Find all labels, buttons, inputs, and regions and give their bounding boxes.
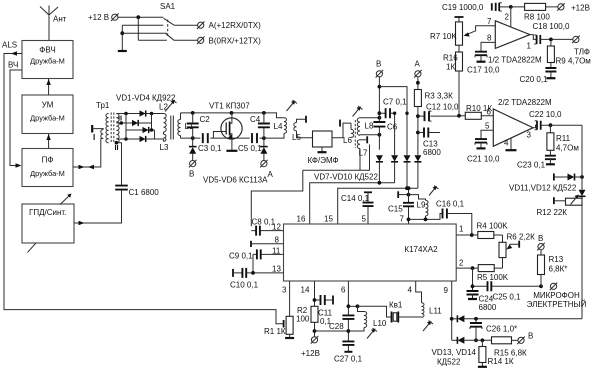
capacitor C14 0,1 <box>341 192 374 224</box>
svg-text:С1 6800: С1 6800 <box>129 188 160 197</box>
svg-text:В: В <box>538 234 543 243</box>
wire УМ to ФВЧ with up arrow <box>46 79 50 95</box>
svg-text:C20 0,1: C20 0,1 <box>520 75 549 84</box>
А column top <box>416 77 420 155</box>
capacitor C27 0,1 <box>334 341 363 363</box>
capacitor C9 0,1 <box>229 249 284 273</box>
svg-text:VD7-VD10 КД522: VD7-VD10 КД522 <box>314 173 378 182</box>
svg-text:2: 2 <box>505 13 510 22</box>
svg-text:R9 4,7Ом: R9 4,7Ом <box>556 57 591 66</box>
svg-text:2: 2 <box>459 259 464 268</box>
svg-text:VD13, VD14: VD13, VD14 <box>432 348 477 357</box>
svg-text:C7 0,1: C7 0,1 <box>383 98 407 107</box>
filter output wire with bar <box>332 120 351 138</box>
transformer Тр1 winding II right <box>116 114 119 143</box>
resistor R8 100 <box>511 3 558 21</box>
op-amp U1 2/2 TDA2822M <box>485 98 552 148</box>
resistor R11 4,7Ом <box>547 125 579 155</box>
wire L1 top to rail <box>180 113 182 120</box>
wire L7 bottom to AF line <box>359 149 361 171</box>
label VD13 VD14 КД522 <box>432 348 477 367</box>
svg-text:3: 3 <box>282 286 287 295</box>
diode VD5 <box>189 138 197 160</box>
svg-text:R13: R13 <box>549 255 564 264</box>
transformer Тр1 core <box>111 113 114 144</box>
capacitor C15 <box>388 186 414 224</box>
diode VD1 <box>140 110 146 116</box>
capacitor C21 10,0 <box>467 130 500 163</box>
diode VD10 <box>414 155 421 188</box>
svg-text:C27 0,1: C27 0,1 <box>334 355 363 364</box>
ПФ output wire with arrows <box>73 139 101 170</box>
svg-text:5: 5 <box>362 215 367 224</box>
ALS feedback wire to R1 tap <box>4 51 284 327</box>
top rail VT1 stage <box>181 111 285 118</box>
transformer Тр1 winding II left <box>106 114 122 153</box>
svg-text:R3 3,3К: R3 3,3К <box>425 92 454 101</box>
svg-text:ЭЛЕКТРЕТНЫЙ: ЭЛЕКТРЕТНЫЙ <box>527 300 587 309</box>
terminal A RX supply <box>197 21 261 30</box>
capacitor C20 0,1 <box>520 68 557 84</box>
diode VD6 <box>260 138 268 160</box>
capacitor C4 <box>250 113 270 138</box>
svg-text:R14 1К: R14 1К <box>488 357 514 366</box>
block ФВЧ Дружба-М <box>22 41 73 79</box>
svg-text:6: 6 <box>341 286 346 295</box>
block ГПД/Синт <box>22 204 74 243</box>
tuning arrow on L9 <box>429 186 439 196</box>
svg-text:С3 0,1: С3 0,1 <box>198 144 222 153</box>
diode VD4 <box>140 136 146 142</box>
resistor R16 1К <box>443 45 463 116</box>
antenna <box>40 6 58 41</box>
svg-text:8: 8 <box>275 236 280 245</box>
resistor R1 1К preset <box>264 316 294 338</box>
svg-text:7: 7 <box>400 215 405 224</box>
capacitor C25 0,1 <box>473 281 543 301</box>
svg-text:ГПД/Синт.: ГПД/Синт. <box>29 208 66 217</box>
svg-text:В: В <box>376 60 381 69</box>
microphone terminal <box>527 283 587 310</box>
tuning arrow on L8 <box>353 106 363 117</box>
diode VD8 <box>391 155 398 183</box>
inductor L11 <box>416 281 443 317</box>
svg-text:C26 1,0*: C26 1,0* <box>486 325 517 334</box>
svg-text:L6: L6 <box>343 136 352 145</box>
svg-text:16: 16 <box>297 215 306 224</box>
svg-text:Кв1: Кв1 <box>389 301 403 310</box>
svg-text:C2: C2 <box>200 115 211 124</box>
svg-text:C9 0,1: C9 0,1 <box>229 252 253 261</box>
svg-text:Дружба-М: Дружба-М <box>30 57 65 66</box>
terminal В top <box>376 60 384 78</box>
terminal +12В bottom <box>301 336 320 358</box>
svg-text:А: А <box>268 170 274 179</box>
svg-text:VD11,VD12 КД522: VD11,VD12 КД522 <box>509 184 577 193</box>
resistor R14 1К <box>478 340 514 367</box>
terminal А mid <box>260 160 273 179</box>
svg-text:C16 0,1: C16 0,1 <box>436 200 465 209</box>
svg-text:L2: L2 <box>159 103 168 112</box>
terminal B TX supply <box>197 37 261 46</box>
svg-text:КД522: КД522 <box>437 358 461 367</box>
+12V supply terminal <box>88 13 119 22</box>
mixer row4 wire <box>116 130 163 141</box>
wire L8 top to В column <box>360 116 381 120</box>
mixer row3 wire <box>126 114 155 132</box>
svg-text:3: 3 <box>527 131 532 140</box>
svg-text:1: 1 <box>527 42 532 51</box>
L9 bottom rail to C16 <box>409 214 443 222</box>
op1 output C18 <box>527 22 573 51</box>
stepped wire to C8 <box>251 170 302 226</box>
mixer row2 wire <box>116 114 151 125</box>
svg-text:5: 5 <box>485 122 490 131</box>
svg-text:VT1 КП307: VT1 КП307 <box>209 102 250 111</box>
resistor R15 6,8К <box>492 337 528 358</box>
d3 column <box>405 112 408 156</box>
tuning arrow on L11 <box>423 321 433 332</box>
svg-text:+12 В: +12 В <box>88 13 109 22</box>
svg-text:Дружба-М: Дружба-М <box>30 169 65 178</box>
svg-text:В: В <box>189 170 194 179</box>
svg-text:4: 4 <box>408 286 413 295</box>
pin14 column R2 <box>296 281 318 337</box>
svg-text:К174ХА2: К174ХА2 <box>404 245 438 254</box>
terminal +12В top right <box>557 3 590 12</box>
svg-text:C21 10,0: C21 10,0 <box>467 155 500 164</box>
svg-text:B(0RX/+12TX): B(0RX/+12TX) <box>209 37 262 46</box>
svg-text:6800: 6800 <box>423 148 441 157</box>
svg-text:C5 0,1: C5 0,1 <box>238 144 262 153</box>
svg-text:А: А <box>415 60 421 69</box>
svg-text:МИКРОФОН: МИКРОФОН <box>533 291 580 300</box>
capacitor C10 0,1 <box>230 268 284 290</box>
wire C1 to ГПД output with arrow <box>74 190 122 225</box>
svg-text:1/2 TDA2822M: 1/2 TDA2822M <box>488 56 542 65</box>
svg-text:I: I <box>93 133 95 142</box>
inductor L2 <box>159 103 168 132</box>
svg-text:R4 100K: R4 100K <box>477 222 509 231</box>
transistor VT1 КП307 <box>209 102 250 151</box>
pin3 wire to R1 <box>289 281 291 316</box>
svg-text:R10 1К: R10 1К <box>466 104 492 113</box>
svg-text:R8 100: R8 100 <box>524 13 550 22</box>
resistor R12 22К pot <box>537 195 583 218</box>
diode VD3 <box>143 127 149 133</box>
capacitor C3 <box>198 133 222 153</box>
diode VD12 <box>579 190 586 197</box>
L5 top bar link <box>297 116 307 123</box>
d2 column <box>393 112 396 156</box>
transformer Тр1 winding I <box>92 125 103 142</box>
svg-text:C4: C4 <box>250 115 261 124</box>
svg-text:C19 1000,0: C19 1000,0 <box>442 3 484 12</box>
resistor R7 10K pot <box>430 17 495 45</box>
AF line under filter <box>303 145 370 171</box>
svg-text:1К: 1К <box>446 63 455 72</box>
inductor L7 <box>357 140 368 158</box>
svg-text:В: В <box>528 332 533 341</box>
resistor R10 1К <box>457 104 493 119</box>
terminal В near R13 <box>537 234 545 250</box>
svg-text:6800: 6800 <box>479 303 497 312</box>
svg-text:C10 0,1: C10 0,1 <box>230 281 259 290</box>
variable slash on ГПД bottom left <box>28 243 36 252</box>
switch SA1 <box>118 2 198 51</box>
capacitor C24 6800 <box>467 268 497 312</box>
svg-text:SA1: SA1 <box>160 2 176 11</box>
branch В to d3 column <box>379 87 407 114</box>
diode VD11 <box>554 174 584 181</box>
svg-text:Ант: Ант <box>53 15 67 24</box>
resistor R6 2,2К pot <box>499 233 535 269</box>
tuning arrow on L10 <box>367 328 377 339</box>
В column <box>378 77 382 150</box>
capacitor C7 <box>379 98 407 119</box>
terminal А top <box>414 60 422 78</box>
inductor L8 <box>357 118 374 136</box>
svg-text:R16: R16 <box>443 54 458 63</box>
svg-text:C15: C15 <box>388 205 403 214</box>
diode VD14 <box>452 337 492 344</box>
inductor L4 <box>274 118 287 134</box>
capacitor C5 <box>238 133 262 153</box>
svg-text:C25 0,1: C25 0,1 <box>493 293 522 302</box>
svg-text:R11: R11 <box>556 134 571 143</box>
svg-text:L8: L8 <box>365 122 374 131</box>
wire L8 bottom to В column <box>360 133 381 137</box>
svg-text:2/2 TDA2822M: 2/2 TDA2822M <box>498 98 552 107</box>
ВЧ wire into ПФ with right arrow <box>10 70 22 168</box>
svg-text:+12В: +12В <box>571 4 590 13</box>
svg-text:C17 10,0: C17 10,0 <box>467 66 500 75</box>
svg-text:L10: L10 <box>373 319 387 328</box>
IC K174XA2 <box>272 215 464 296</box>
rail A to pin16 <box>310 181 395 224</box>
filter КФ/ЭМФ <box>308 131 339 165</box>
svg-text:4: 4 <box>504 139 509 148</box>
op-amp U1 1/2 TDA2822M <box>487 7 542 65</box>
svg-text:Тр1: Тр1 <box>96 101 110 110</box>
tuning arrow on ГПД top right <box>60 194 72 205</box>
svg-text:ПФ: ПФ <box>42 156 54 165</box>
terminal ТЛФ <box>572 36 590 57</box>
pin1 wire <box>456 233 473 237</box>
capacitor C1 6800 <box>115 186 159 197</box>
core L2-L1 <box>171 116 174 140</box>
svg-text:L4: L4 <box>274 122 283 131</box>
capacitor C26 1,0 <box>470 319 517 342</box>
right bus vertical <box>581 125 583 319</box>
op2 output C22 <box>527 110 583 140</box>
block ПФ Дружба-М <box>22 149 73 187</box>
tuning arrow on L2 <box>165 100 177 112</box>
crystal Кв1 <box>358 301 422 323</box>
bottom rail C3 C5 <box>181 133 285 140</box>
rail B to pin15 <box>338 186 418 224</box>
svg-text:Дружба-М: Дружба-М <box>30 114 65 123</box>
resistor R13 6,8К <box>538 250 568 287</box>
svg-text:A(+12RX/0TX): A(+12RX/0TX) <box>209 21 262 30</box>
svg-text:9: 9 <box>444 286 449 295</box>
inductor L9 <box>409 195 429 220</box>
svg-text:15: 15 <box>324 215 333 224</box>
diode VD2 <box>132 120 138 126</box>
pin6 column C28 C27 <box>347 281 351 351</box>
svg-text:R6 2,2К: R6 2,2К <box>507 233 536 242</box>
svg-text:6,8К*: 6,8К* <box>549 265 568 274</box>
svg-text:R1 1К: R1 1К <box>264 327 286 336</box>
capacitor C23 0,1 <box>517 156 556 170</box>
capacitor C2 <box>187 113 211 138</box>
block УМ Дружба-М <box>22 95 73 134</box>
svg-text:100: 100 <box>296 315 310 324</box>
capacitor C16 0,1 <box>436 200 472 236</box>
svg-text:C12 10,0: C12 10,0 <box>426 103 459 112</box>
svg-text:C6: C6 <box>387 123 398 132</box>
inductor L1 <box>178 120 194 136</box>
VT1 source ground <box>226 150 237 152</box>
capacitor C12 10,0 <box>418 103 459 122</box>
capacitor C11 0,1 <box>315 295 334 326</box>
capacitor C8 0,1 <box>251 218 283 236</box>
diode VD7 <box>376 155 383 183</box>
svg-text:L3: L3 <box>160 143 169 152</box>
svg-text:C23 0,1: C23 0,1 <box>517 161 546 170</box>
svg-text:VD5-VD6 КС113А: VD5-VD6 КС113А <box>203 176 268 185</box>
inductor L5 <box>292 123 301 143</box>
wire ПФ to УМ with up arrow <box>46 134 50 149</box>
core L6-L8 <box>354 120 356 148</box>
pin9 column <box>450 281 454 340</box>
capacitor C28 <box>329 315 354 331</box>
diode VD13 <box>452 315 582 322</box>
pin8 bar <box>251 241 284 247</box>
inductor L10 <box>348 304 386 331</box>
svg-text:7: 7 <box>487 17 492 26</box>
op2 pin4 ground <box>506 138 517 150</box>
svg-text:C14 0,1: C14 0,1 <box>341 194 370 203</box>
capacitor C13 6800 <box>418 128 441 158</box>
capacitor C6 <box>373 122 397 132</box>
svg-text:ФВЧ: ФВЧ <box>39 46 55 55</box>
svg-text:C22 10,0: C22 10,0 <box>529 110 562 119</box>
center tap wire to C1 <box>115 141 122 185</box>
terminal В bottom <box>517 332 533 345</box>
wire R2 bottom to pin6 column <box>315 330 349 332</box>
svg-text:ALS: ALS <box>2 41 17 50</box>
diode VD9 <box>404 155 411 188</box>
svg-text:13: 13 <box>272 265 281 274</box>
resistor R5 100K <box>456 265 509 282</box>
capacitor C17 10,0 <box>467 42 500 74</box>
svg-text:L9: L9 <box>417 201 426 210</box>
inductor L6 <box>343 123 354 145</box>
svg-text:L11: L11 <box>429 307 442 316</box>
svg-text:VD1-VD4 КД922: VD1-VD4 КД922 <box>116 94 176 103</box>
tuning arrow on L4 <box>287 100 298 111</box>
wire L1 bottom <box>180 136 182 139</box>
capacitor C19 1000,0 <box>442 3 513 12</box>
svg-text:C18 100,0: C18 100,0 <box>533 22 570 31</box>
svg-text:R12 22К: R12 22К <box>537 208 568 217</box>
svg-text:R5 100K: R5 100K <box>477 273 509 282</box>
terminal В left <box>189 160 197 179</box>
inductor L3 <box>160 132 169 152</box>
wire L5 to filter <box>297 131 313 138</box>
VT1 gate wire <box>213 132 221 139</box>
filter ground <box>318 147 327 152</box>
svg-text:14: 14 <box>301 286 310 295</box>
svg-text:8: 8 <box>487 34 492 43</box>
resistor R3 3,3К <box>414 90 453 107</box>
mixer row1 wire <box>116 112 163 116</box>
resistor R4 100K <box>472 222 508 239</box>
svg-text:ТЛФ: ТЛФ <box>574 48 590 57</box>
svg-text:+12В: +12В <box>301 349 320 358</box>
svg-text:С28: С28 <box>329 322 344 331</box>
svg-text:4,7Ом: 4,7Ом <box>556 144 579 153</box>
svg-text:C8 0,1: C8 0,1 <box>252 218 276 227</box>
resistor R9 4,7Ом <box>547 39 590 67</box>
svg-text:1: 1 <box>459 225 464 234</box>
svg-text:ВЧ: ВЧ <box>8 61 18 70</box>
svg-text:УМ: УМ <box>42 101 54 110</box>
svg-text:R7 10K: R7 10K <box>430 32 457 41</box>
svg-text:КФ/ЭМФ: КФ/ЭМФ <box>308 156 339 165</box>
L7 top bar link <box>360 136 367 143</box>
